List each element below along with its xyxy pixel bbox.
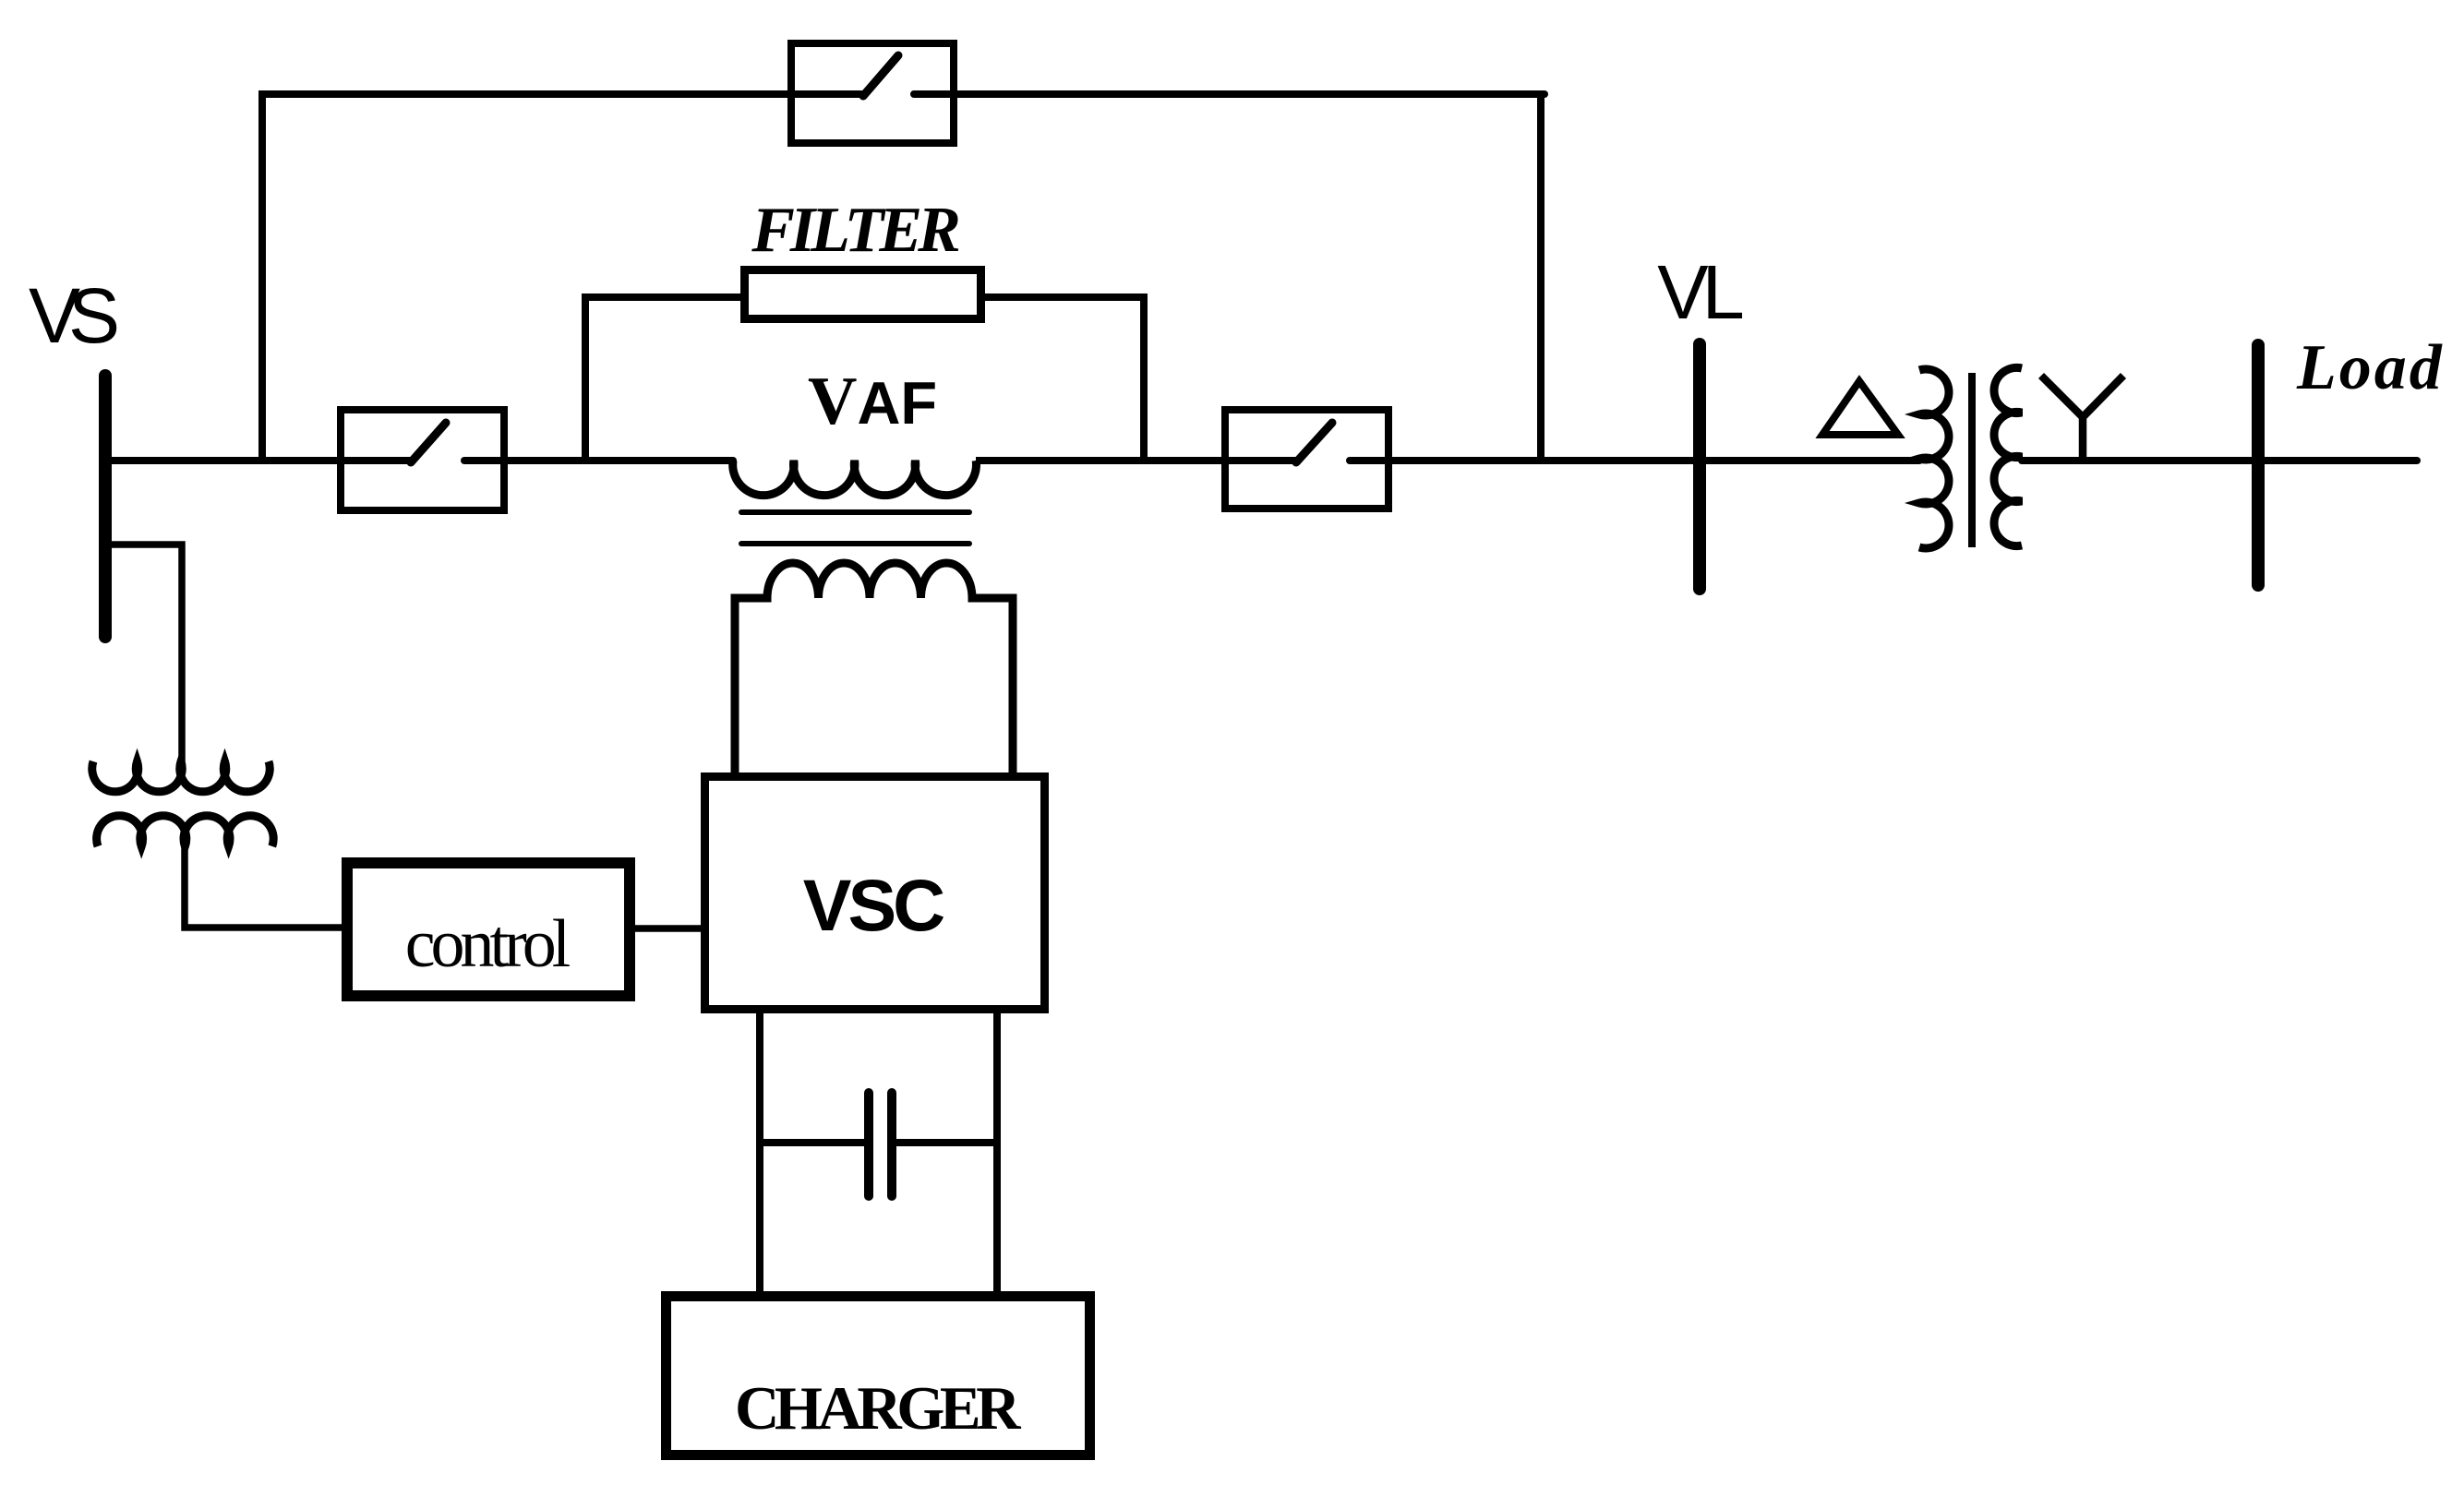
wire VSC to capacitor right	[993, 1013, 1001, 1292]
wire filter left vertical	[582, 297, 589, 461]
transformer T delta symbol	[1822, 381, 1898, 435]
control box	[347, 863, 630, 996]
wire filter right vertical	[1140, 297, 1148, 461]
wire bypass left vertical	[258, 94, 266, 461]
PT secondary winding	[97, 816, 274, 846]
transformer VAF core line 1	[741, 509, 969, 515]
transformer T wye symbol	[2041, 376, 2123, 461]
capacitor C plate left	[864, 1093, 873, 1196]
wire filter left lead	[582, 293, 744, 301]
wire PT secondary lead to control	[185, 835, 342, 928]
wire main line: VAF to right breaker blade pivot	[976, 457, 1300, 464]
bus VS	[99, 376, 112, 637]
wire VSC to capacitor left	[756, 1013, 763, 1292]
breaker S1 (left series switch) box	[341, 410, 504, 510]
svg-text:VL: VL	[1657, 249, 1742, 335]
wire bypass right vertical	[1537, 94, 1545, 461]
svg-text:VS: VS	[29, 272, 117, 359]
transformer VAF primary winding	[733, 461, 977, 496]
transformer T core line	[1968, 373, 1976, 547]
transformer VAF core line 2	[741, 541, 969, 546]
charger box	[667, 1297, 1090, 1455]
svg-text:VAF: VAF	[808, 364, 937, 439]
wire filter right lead	[981, 293, 1148, 301]
wire bypass top left segment	[258, 90, 865, 98]
filter box	[745, 270, 981, 319]
wire main line: S1 contact to VAF primary	[464, 457, 733, 464]
breaker S1 blade	[411, 423, 446, 462]
transformer VAF secondary winding and leads	[735, 563, 1013, 776]
svg-text:control: control	[405, 906, 571, 982]
wire main line: S2 contact to transformer T	[1350, 457, 1919, 464]
VSC box	[705, 777, 1045, 1010]
transformer T secondary winding	[1994, 367, 2022, 545]
bus Load	[2252, 345, 2265, 585]
transformer T primary winding	[1919, 369, 1949, 548]
wire bypass top right segment (contact side)	[914, 90, 1545, 98]
wire main line: transformer T to load end	[2022, 457, 2417, 464]
breaker S2 (right series switch) box	[1225, 410, 1388, 509]
wire capacitor right lead	[896, 1139, 997, 1146]
PT primary winding	[92, 761, 270, 792]
breaker S2 blade	[1296, 423, 1332, 462]
capacitor C plate right	[887, 1093, 896, 1196]
wire VS bus tap and PT primary lead	[102, 545, 182, 763]
svg-text:CHARGER: CHARGER	[735, 1374, 1021, 1443]
svg-text:FILTER: FILTER	[751, 195, 959, 266]
svg-text:VSC: VSC	[803, 864, 944, 946]
breaker S3 blade	[863, 55, 898, 96]
wire control to VSC	[635, 925, 702, 932]
wire main line: VS bus to left breaker blade pivot	[102, 457, 415, 464]
breaker S3 (bypass switch) box	[791, 43, 954, 143]
bus VL	[1693, 344, 1706, 589]
svg-text:Load: Load	[2296, 332, 2445, 403]
wire capacitor left lead	[760, 1139, 864, 1146]
